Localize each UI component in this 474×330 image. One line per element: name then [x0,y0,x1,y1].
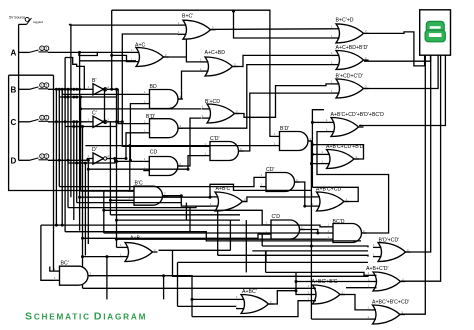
wire seg f [401,55,441,281]
wire C'D out [300,230,318,234]
wire G21 in1 riser [312,110,324,188]
OR gate B'+CD+C'D' [331,74,369,99]
node junction 126b [81,125,84,128]
node junction C3 [64,120,67,123]
node junction 97d [75,96,78,99]
wire BC'D in3 feed [117,238,328,240]
wire lattice v186 [185,203,187,221]
wire CD' out [295,182,312,206]
node junction 97e [79,96,82,99]
svg-text:B'D'+CD': B'D'+CD' [379,238,400,244]
AND gate BC' [54,261,94,286]
svg-text:1: 1 [41,46,43,50]
wire jog above G12 [210,184,311,197]
node junction A1 [78,51,81,54]
wire trunk B' branch A+C [112,55,131,61]
wire A switch feed [19,51,27,53]
AND gate CD' [260,167,300,192]
wire bus v69 B3 [70,24,72,197]
wire B rail [48,88,87,90]
wire D' out to bus [110,133,144,159]
svg-text:C: C [11,118,17,127]
svg-text:B'D': B'D' [280,126,289,132]
wire v103 trunk [103,191,105,234]
switch B [27,83,49,90]
node junction B8 [75,88,78,91]
svg-text:A: A [11,49,17,58]
wire left loop vertical [9,75,141,191]
svg-text:A+B'C+CD'+B'D'+BC'D: A+B'C+CD'+B'D'+BC'D [331,112,385,118]
wire G20 in1 stub [312,121,326,123]
wire B' out to bus [59,89,116,97]
wire B+C' out [211,28,331,31]
node junction 296 [295,289,298,292]
wire D' loop [68,159,115,164]
wire B'D'2 to G24 [310,164,312,246]
svg-text:1: 1 [41,154,43,158]
svg-text:A+C+BD+B'D': A+C+BD+B'D' [336,45,369,51]
node junction B7 [72,88,75,91]
svg-text:2: 2 [46,116,48,120]
svg-text:BD: BD [150,84,157,90]
wire D switch feed [19,159,27,161]
node junction D2 [67,159,70,162]
wire v110 C drop [109,122,111,215]
node junction C2 [75,120,78,123]
svg-text:1: 1 [41,116,43,120]
svg-text:2: 2 [46,83,48,87]
svg-text:C': C' [92,111,97,117]
wire B'C out [163,196,211,206]
svg-text:B'+CD+C'D': B'+CD+C'D' [336,74,363,80]
wire bus v86 D'2 [84,163,86,256]
wire BD in1 feed [62,93,143,95]
wire G22 out loop [312,187,358,201]
wire lattice v246 [245,220,247,272]
wire mid 262 link [265,251,267,262]
wire A+BC' out [269,291,308,304]
wire G24 in2 line [218,255,368,256]
svg-text:SCHEMATICDIAGRAM: SCHEMATICDIAGRAM [25,311,147,323]
node junction trunk B' [110,88,113,91]
node junction C4 [55,120,58,123]
node junction C'D out [316,232,319,235]
wire BC' drop 163 [163,276,165,300]
wire BD out [179,71,201,99]
node junction D1 [58,159,61,162]
svg-text:2: 2 [46,154,48,158]
AND gate C'D' [204,136,244,161]
wire mid 252 ext [173,249,231,251]
node junction v116 CD [115,160,118,163]
wire v104 link [104,89,106,122]
wire D' bus link [77,162,86,164]
node junction CD' branch [303,205,306,208]
wire A+C+BD out [233,55,331,66]
node junction B6 [69,88,72,91]
wire BC'D in1 feed [41,225,327,227]
wire C'D' in2 feed [188,156,204,170]
wire seg a [364,32,425,66]
wire A+B in2 feed [83,256,121,258]
node junction 311 246 [310,245,313,248]
svg-text:2: 2 [46,46,48,50]
node junction v192 [191,298,194,301]
node junction v106 [105,255,108,258]
wire G21 in1 stub [312,153,321,155]
wire CD' in1 feed [59,177,260,186]
OR gate A+C [131,43,169,67]
wire left drop to BC' in2 [41,225,54,280]
OR gate A+BC' [236,289,274,314]
OR gate A+C+BD [200,50,238,76]
OR gate A+B'C+CD'+B'D'+BC'D [326,112,384,137]
svg-text:A+BC'+B'C+CD': A+BC'+B'C+CD' [372,300,409,306]
wire A+B'C out [243,197,312,202]
power source 5V [19,17,44,24]
node junction box top [311,143,314,146]
wire staircase 2 [79,52,97,56]
node junction bus56 on 225 [55,224,58,227]
wire B'C in1 feed [81,190,129,192]
wire bus v79 A [79,52,81,230]
wire CD out to B'+CD [179,118,202,166]
node junction v104 bot [103,120,106,123]
OR gate B'+CD [202,99,240,123]
node junction v103 210 [102,209,105,212]
wire seg g [401,55,426,314]
AND gate BD [144,84,184,109]
wire G24 in1 drop [261,234,263,246]
OR gate A+B'C [210,186,248,211]
OR gate A+B [120,236,158,262]
svg-text:A+C+BD: A+C+BD [205,50,226,56]
wire A+B out [159,250,369,276]
svg-text:B'+CD: B'+CD [205,99,220,105]
svg-text:BC'D: BC'D [333,219,345,225]
node junction G12 in1 [209,196,212,199]
AND gate C'D [265,214,305,239]
wire A+BC' branch up [295,272,297,290]
node junction B1 [55,88,58,91]
wire v116 trunk [116,97,118,247]
wire BD in1 jog [61,89,63,94]
node junction G21 in1 [311,153,314,156]
inverter D' [87,147,110,164]
svg-text:B+C': B+C' [182,14,193,20]
node junction v104 top [103,88,106,91]
switch C [27,115,49,122]
wire mid 251 link [265,251,267,273]
node junction B3 [61,88,64,91]
wire lattice v190 [189,208,191,232]
node junction 163a [75,162,78,165]
node junction 97b [67,96,70,99]
node junction 126a [72,125,75,128]
wire mid 231 line [65,232,361,241]
wire v129 drop [129,146,131,191]
svg-text:A+BC': A+BC' [242,289,257,295]
switch D [27,154,49,161]
node junction v83 b [81,255,84,258]
svg-text:A+B+C'D': A+B+C'D' [366,266,388,272]
wire mid 262 line [178,261,369,263]
wire C'D' in1 feed [122,122,204,147]
svg-text:B+C'+D: B+C'+D [336,18,354,24]
node junction D' pickup [113,157,116,160]
wire G26 in3 feed [192,301,308,317]
node junction B'D'2 [310,162,313,165]
wire bus v53 B [53,75,55,271]
wire BC' in1 feed [50,267,54,272]
wire bus v65 C2 [64,58,66,232]
wire A+C out [164,57,201,62]
svg-text:toggled: toggled [33,20,43,24]
OR gate A+BC'+B'C [308,279,346,304]
wire C switch feed [19,121,27,123]
wire BC'D in2 feed [104,232,327,234]
svg-text:5V Source: 5V Source [9,16,25,20]
AND gate CD [143,150,183,176]
wire trunk B' up [111,10,113,89]
wire C'D in1 feed [104,210,265,225]
wire bus v80 B' [80,97,82,191]
wire v192 ext [191,299,193,316]
wire B'+CD in1 feed [81,108,202,110]
wire v106 drop [106,257,108,300]
node junction C' down [121,120,124,123]
wire bus v88 [87,160,89,244]
wire mid 272 line [266,272,368,275]
node junction v116 b [115,238,118,241]
wire A+B up [229,220,231,250]
node junction 97a [64,96,67,99]
wire power rail vertical [18,24,20,160]
wire bus v77 D' [76,122,78,203]
node junction C'D' in2 [187,168,190,171]
node junction B'C out [180,194,183,197]
wire A long line [80,196,210,198]
node junction CD in1 [115,160,118,163]
wire seg b [364,55,431,61]
node junction B4 [64,88,67,91]
svg-text:B'D': B'D' [146,114,155,120]
svg-text:B'C: B'C [135,181,143,187]
node junction 129 on145 [128,144,131,147]
OR gate A+B+C'D' [366,266,406,291]
OR gate B'D'+CD' [373,238,411,262]
wire seg e [406,55,431,252]
wire mid 251 line [252,250,368,252]
wire v311 ext [310,246,312,319]
wire B'C in2 feed [110,199,128,201]
OR gate B+C' [178,14,216,40]
node junction trunk branch [110,54,113,57]
wire bus v59 D [58,89,60,186]
wire bus v74 C' [73,122,75,220]
wire C' up trunk [117,34,179,122]
wire left loop [9,74,54,76]
node junction A line [78,196,81,199]
wire A branch to A+C area [80,60,136,62]
svg-text:D: D [11,157,17,166]
node junction v110 200 [109,199,112,202]
wire C'D in2 feed [83,234,266,238]
OR gate A+B'C+CD' [312,187,350,212]
wire G25 in3 stub [346,287,368,289]
wire bus v83 C'2 [82,127,84,289]
wire CD in2 feed [88,168,188,170]
wire B'D' G6 out [179,65,332,129]
wire B'D'2 in2 feed [85,145,273,147]
svg-text:B': B' [92,78,96,84]
wire staircase 1 [65,58,84,90]
node junction top line [232,10,235,13]
wire mid 214 line [110,214,240,216]
node junction B' 108 [79,107,82,110]
wire B to B+C' in1 [69,24,71,25]
AND gate B'D' [274,126,314,151]
node junction C1 [72,120,75,123]
OR gate B+C'+D [331,18,369,43]
wire bus v68 D2 [67,89,69,207]
node junction v116 a [115,219,118,222]
wire bus v56 C [55,89,57,225]
wire C' out to bus [65,122,116,127]
wire G25 in2 feed [296,281,368,283]
OR gate A+B'C+CD'+B'D' [322,144,365,169]
node junction bus62 on 225 [61,224,64,227]
AND gate B'D' [144,114,184,138]
inverter B' [87,78,110,95]
wire BC'D out loop [317,132,389,233]
wire D rail [48,159,87,161]
wire v186 from B+C' area [185,39,187,58]
node junction D3 [87,159,90,162]
wire seg c [364,55,438,88]
svg-text:CD: CD [150,150,158,156]
wire C' bus link [74,126,83,128]
switch A [27,46,49,53]
OR gate A+C+BD+B'D' [331,45,369,70]
node junction B' pickup [115,88,118,91]
wire B'+CD out [235,84,331,117]
AND gate BC'D [327,219,367,243]
node junction 296b [295,280,298,283]
wire BC' out [89,276,237,300]
wire C'D' out [239,93,331,151]
wire B+C'+D in2 feed [234,11,332,38]
wire G26 out [341,295,368,310]
node junction CD in2 [87,168,90,171]
svg-text:A+C: A+C [135,43,145,49]
wire mid 220 line [117,219,241,221]
svg-text:BC': BC' [61,261,69,267]
node junction 97c [72,96,75,99]
node junction 163 drop [162,274,165,277]
wire G26 in1 feed [83,287,308,289]
wire lattice v217 [217,210,219,255]
wire A+B in1 feed [117,246,121,248]
svg-text:CD': CD' [266,167,274,173]
wire G24 in1 line [262,246,368,247]
7-segment display [420,10,451,55]
wire seg d [359,55,445,125]
svg-text:B: B [11,86,17,95]
node junction D' corner [125,157,128,160]
node junction B9 [78,88,81,91]
svg-text:C'D': C'D' [210,136,219,142]
OR gate A+BC'+B'C+CD' [368,300,410,325]
wire mid line 202 [77,202,182,204]
node junction v83 [81,237,84,240]
wire bus v62 B2 [61,89,63,225]
wire B+C' in1 feed [70,24,179,26]
wire A+BC' in2 feed [178,305,237,307]
node junction C' pickup [115,120,118,123]
wire A rail [48,51,131,53]
svg-text:1: 1 [41,83,43,87]
wire CD in1 feed [117,160,144,162]
wire v177 drop [177,262,179,306]
AND gate B'C [128,181,168,206]
node junction B5 [67,88,70,91]
wire G21 out loop [312,145,363,159]
wire trunk B' top across [112,10,274,136]
wire B'D'2 out down [308,141,322,164]
node junction BD in2 [129,159,132,162]
svg-text:C'D: C'D [272,214,281,220]
node junction 163b [84,162,87,165]
node junction B2 [58,88,61,91]
inverter C' [87,111,110,128]
node junction riser 122 [311,121,314,124]
wire D rail jog to inverter [86,159,88,161]
svg-text:D': D' [92,147,97,153]
wire B switch feed [19,88,27,90]
wire G27 in2 feed [311,318,367,320]
wire BD in2 feed [130,104,143,161]
wire B'D' in1 feed [110,89,144,123]
wire CD' in2 feed [68,206,210,208]
wire C rail [48,121,87,123]
